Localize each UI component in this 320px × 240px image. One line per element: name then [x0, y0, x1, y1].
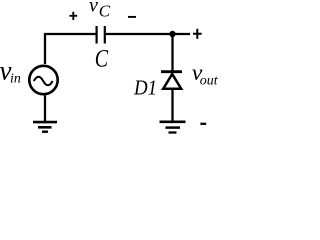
svg-text:C: C — [95, 44, 109, 72]
svg-text:out: out — [200, 74, 219, 89]
svg-text:C: C — [99, 2, 111, 21]
svg-text:D1: D1 — [133, 77, 157, 100]
svg-text:v: v — [89, 0, 98, 16]
svg-text:in: in — [10, 72, 21, 87]
